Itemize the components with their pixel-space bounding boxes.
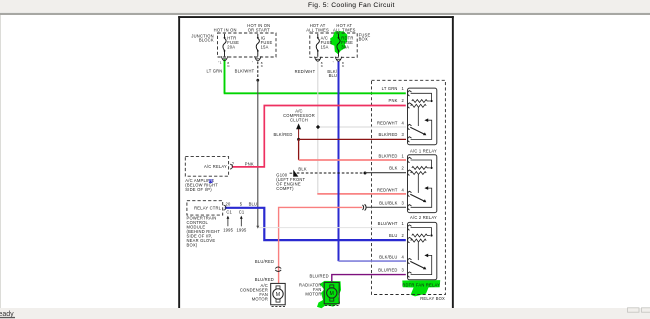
svg-text:BLU/WHT: BLU/WHT	[378, 221, 398, 226]
radiator motor ground stub	[325, 305, 339, 307]
svg-text:A/C 1 RELAY: A/C 1 RELAY	[410, 148, 437, 153]
wire BLU/RED purple from radiator fan motor	[332, 275, 406, 283]
relay A/C 2 body box	[408, 155, 437, 213]
svg-text:Fig. 5: Cooling Fan Circuit: Fig. 5: Cooling Fan Circuit	[308, 2, 395, 9]
wire BLU/RED salmon horizontal to inline connector	[279, 207, 363, 283]
svg-text:BLU: BLU	[329, 73, 338, 78]
svg-text:RDTR FAN RELAY: RDTR FAN RELAY	[402, 283, 440, 288]
wire BLU/WHT faint to fan relay pin 1	[259, 227, 407, 229]
relay A/C 2 switch arm	[410, 194, 424, 201]
highlight blob over RDTR fuse	[330, 31, 347, 54]
svg-text:⌜1: ⌜1	[218, 60, 221, 64]
junction block dashed box	[218, 33, 277, 57]
svg-text:BLU/RED: BLU/RED	[310, 273, 329, 278]
BLK/WHT end arrowhead	[256, 226, 259, 229]
relay A/C 2 coil to pin2 link	[411, 172, 412, 173]
PCM relay ctrl pin bracket	[224, 205, 226, 210]
svg-text:15A: 15A	[261, 44, 269, 49]
fuse IG terminal dots	[257, 37, 259, 39]
relay A/C 1 pin3 contact line	[411, 120, 432, 139]
relay A/C 2 actuator link	[417, 175, 419, 193]
svg-text:BLK: BLK	[298, 166, 306, 171]
svg-text:20A: 20A	[227, 44, 235, 49]
RELAY RDTR FAN	[408, 222, 437, 279]
junction dot on BLK ground run	[364, 172, 367, 175]
A/C compressor clutch arrow	[298, 128, 300, 140]
fuse RDTR 30A element	[337, 34, 340, 57]
svg-text:1995: 1995	[237, 227, 247, 232]
wire LT GRN horizontal to A/C 1 relay pin 1	[224, 92, 406, 94]
svg-text:HOT IN ON: HOT IN ON	[214, 27, 237, 32]
window left edge line	[0, 15, 1, 308]
condenser motor bottom terminal	[276, 299, 280, 302]
relay RDTR fan body box	[408, 222, 437, 279]
relay A/C 2 coil zigzag bottom	[411, 172, 426, 175]
wire BLK/RED maroon vertical drop	[298, 139, 300, 160]
svg-text:BLK/RED: BLK/RED	[379, 154, 398, 159]
svg-text:BLU/RED: BLU/RED	[255, 259, 274, 264]
svg-text:LT GRN: LT GRN	[382, 86, 398, 91]
relay A/C 2 pin 4 socket	[408, 191, 412, 197]
svg-text:BOX): BOX)	[187, 242, 198, 247]
highlight blob over radiator fan motor	[317, 281, 341, 308]
relay RDTR fan pin 4 socket	[408, 258, 412, 264]
relay RDTR fan pin 3 socket	[408, 272, 412, 278]
drawing canvas top border	[178, 16, 454, 18]
wire RED/WHT light vertical from A/C fuse	[317, 60, 319, 194]
ground G100 symbol	[290, 171, 298, 177]
relay RDTR fan pin1 feed line	[411, 228, 432, 236]
svg-text:A/C 2 RELAY: A/C 2 RELAY	[410, 215, 437, 220]
junction dot on BLK/WHT	[256, 79, 259, 82]
relay A/C 1 coil to pin2 link	[411, 105, 412, 106]
relay A/C 1 switch arm	[410, 127, 424, 134]
condenser motor top terminal	[276, 286, 280, 289]
svg-text:RED/WHT: RED/WHT	[377, 121, 398, 126]
inline connector C on BLU/RED to BLU/BLK	[363, 204, 367, 210]
RELAY A/C 1	[408, 88, 437, 145]
svg-text:C1: C1	[239, 210, 245, 215]
svg-text:BLK: BLK	[389, 166, 397, 171]
svg-text:PNK: PNK	[245, 161, 254, 166]
condenser motor ground stub	[272, 306, 286, 308]
clutch arrowhead	[296, 123, 301, 129]
relay A/C 2 pin 3 socket	[408, 204, 412, 210]
svg-text:1995: 1995	[223, 227, 233, 232]
relay RDTR fan pin 2 socket	[408, 237, 412, 243]
wire BLK/BLU periwinkle horizontal to fan relay pin 4	[339, 260, 407, 262]
relay box outer dashed box	[372, 80, 446, 294]
wire PNK from A/C relay pin 7	[232, 106, 406, 167]
relay RDTR fan coil zigzag top	[412, 234, 430, 237]
status bar grip panel 2	[642, 308, 650, 312]
fuse box connector under RDTR fuse	[335, 57, 342, 62]
wire BLU from PCM relay ctrl	[225, 208, 406, 240]
relay RDTR fan actuator link	[417, 242, 419, 260]
svg-text:BLU: BLU	[249, 202, 258, 207]
svg-text:CLUTCH: CLUTCH	[290, 118, 308, 123]
wire BLK solid to A/C 2 relay pin 2	[365, 172, 406, 174]
relay RDTR fan coil zigzag bottom	[411, 239, 426, 242]
relay A/C 2 pin3 contact line	[411, 188, 432, 207]
relay RDTR fan coil to pin2 link	[411, 239, 412, 240]
junction block connector under IG fuse	[255, 56, 262, 61]
PCM connector arrow 1 head	[227, 216, 230, 219]
junction block connector under HTR fuse	[221, 56, 228, 61]
A/C condenser fan motor box	[271, 283, 286, 304]
fuse A/C terminal dots	[317, 37, 319, 39]
status bar grip panel 1	[628, 308, 640, 312]
relay A/C 1 pin 3 socket	[408, 137, 412, 143]
relay RDTR fan pin 1 socket	[408, 225, 412, 231]
svg-text:RED/WHT: RED/WHT	[377, 188, 398, 193]
svg-text:M: M	[330, 291, 335, 297]
radiator fan motor box	[324, 282, 339, 303]
relay RDTR fan coil junction dot	[430, 234, 432, 236]
relay A/C 2 contact arrowhead	[424, 186, 428, 190]
radiator motor bottom terminal	[330, 298, 334, 301]
wire RED/WHT salmon horizontal to A/C 2 relay pin 4	[317, 193, 406, 195]
wire BLK/WHT dashed segment below IG fuse	[257, 62, 259, 81]
fuse RDTR terminal dots	[338, 37, 340, 39]
relay A/C 1 actuator link	[417, 108, 419, 127]
relay A/C 2 pin 1 socket	[408, 157, 412, 162]
relay A/C 1 coil zigzag top	[412, 100, 430, 103]
A/C relay pin 7 bracket	[230, 164, 232, 169]
status bar	[0, 308, 650, 319]
relay A/C 1 pin1 feed line	[411, 93, 432, 101]
fuse HTR terminal dots	[224, 37, 226, 39]
radiator motor top terminal	[330, 285, 334, 288]
svg-text:RELAY BOX: RELAY BOX	[420, 296, 445, 301]
condenser motor circle M	[273, 289, 283, 299]
wire BLK/BLU dark blue vertical from RDTR fuse	[338, 61, 340, 261]
fuse box dashed box	[310, 33, 357, 57]
svg-text:C1: C1	[226, 210, 232, 215]
A/C relay dashed box	[185, 157, 228, 177]
svg-text:30A: 30A	[341, 44, 349, 49]
svg-text:BLK/RED: BLK/RED	[273, 132, 292, 137]
svg-text:BLK/WHT: BLK/WHT	[235, 68, 255, 73]
relay A/C 1 pin 2 socket	[408, 103, 412, 109]
svg-text:MOTOR: MOTOR	[305, 292, 321, 297]
title bar	[0, 0, 650, 12]
relay A/C 1 coil junction dot	[430, 100, 432, 102]
svg-text:SIDE OF I/P): SIDE OF I/P)	[185, 187, 212, 192]
svg-text:ALL TIMES: ALL TIMES	[306, 28, 329, 33]
svg-text:COMPT): COMPT)	[276, 186, 294, 191]
relay A/C 1 pin 1 socket	[408, 90, 412, 95]
svg-text:MOTOR: MOTOR	[252, 297, 268, 302]
svg-text:A/C RELAY: A/C RELAY	[204, 164, 227, 169]
wire BLK dashed ground run	[297, 172, 365, 174]
wire LT GRN vertical from HTR fuse	[224, 60, 226, 94]
wire RED/WHT light horizontal to A/C 1 relay pin 4	[318, 126, 406, 128]
junction dot RED/WHT	[316, 125, 320, 129]
fuse IG 15A element	[256, 34, 259, 57]
drawing canvas right border	[452, 16, 454, 308]
svg-text:BLU/RED: BLU/RED	[378, 268, 397, 273]
svg-text:BLK/RED: BLK/RED	[379, 132, 398, 137]
wire BLK/RED maroon horizontal to A/C 1 relay pin 3	[299, 138, 406, 140]
PCM connector arrow 2 head	[240, 216, 243, 219]
svg-text:BLK/BLU: BLK/BLU	[379, 255, 397, 260]
svg-text:OR START: OR START	[248, 28, 270, 33]
junction dot BLK/RED at clutch	[297, 138, 300, 141]
wire BLK/RED salmon horizontal to A/C 2 relay pin 1	[299, 159, 406, 161]
svg-text:BLOCK: BLOCK	[199, 38, 214, 43]
relay A/C 1 body box	[408, 88, 437, 145]
relay RDTR fan switch arm tip	[423, 267, 426, 270]
fuse A/C 15A element	[316, 34, 319, 57]
RELAY A/C 2	[408, 155, 437, 213]
svg-text:PNK: PNK	[389, 98, 398, 103]
svg-text:BLU: BLU	[389, 233, 398, 238]
wire BLU/BLK gray to A/C 2 relay pin 3	[366, 206, 406, 208]
PCM relay ctrl dashed box	[187, 201, 223, 215]
svg-text:RELAY CTRL: RELAY CTRL	[194, 206, 222, 211]
svg-text:BLU/BLK: BLU/BLK	[379, 201, 397, 206]
relay RDTR fan pin3 contact line	[411, 255, 432, 274]
svg-text:BOX: BOX	[359, 37, 368, 42]
relay A/C 2 coil zigzag top	[412, 166, 430, 169]
drawing canvas left border	[178, 16, 180, 308]
PCM connector arrow 2	[240, 218, 242, 227]
svg-text:BLU/RED: BLU/RED	[255, 277, 274, 282]
highlight bar behind RDTR FAN RELAY label	[402, 280, 440, 296]
relay RDTR fan switch arm	[410, 261, 424, 268]
relay A/C 1 switch arm tip	[423, 132, 426, 135]
relay A/C 2 pin 2 socket	[408, 170, 412, 176]
fuse box connector under A/C fuse	[315, 57, 322, 62]
title bar bottom edge line	[0, 13, 650, 15]
relay A/C 2 coil junction dot	[430, 167, 432, 169]
svg-text:RED/WHT: RED/WHT	[295, 69, 316, 74]
radiator motor circle M	[327, 288, 337, 298]
svg-text:LT GRN: LT GRN	[207, 68, 223, 73]
svg-text:ALL TIMES: ALL TIMES	[333, 28, 356, 33]
relay A/C 2 pin1 feed line	[411, 160, 432, 168]
status bar underline segment	[0, 317, 15, 318]
PCM connector arrow 1	[227, 218, 229, 227]
relay A/C 1 coil zigzag bottom	[411, 104, 426, 107]
relay RDTR fan contact arrowhead	[424, 254, 428, 258]
svg-text:20: 20	[226, 202, 231, 207]
amplifier blue selection square	[209, 179, 213, 183]
relay A/C 1 contact arrowhead	[424, 118, 428, 122]
fuse HTR 20A element	[223, 34, 226, 57]
svg-text:M: M	[276, 292, 281, 298]
svg-text:15A: 15A	[321, 44, 329, 49]
relay A/C 1 pin 4 socket	[408, 124, 412, 130]
relay A/C 2 switch arm tip	[423, 199, 426, 202]
wire BLK/WHT solid gray continuation	[257, 80, 259, 226]
inline connector on condenser motor wire	[275, 267, 281, 272]
